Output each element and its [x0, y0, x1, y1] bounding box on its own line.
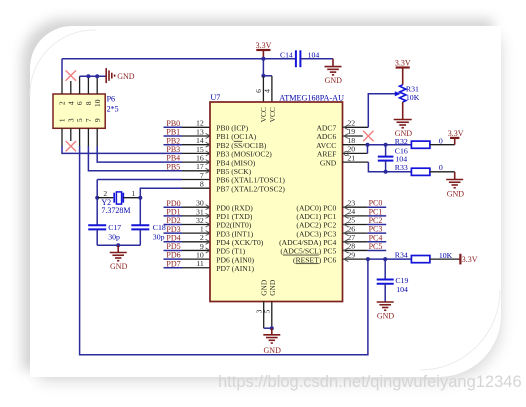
svg-text:3.3V: 3.3V: [462, 255, 478, 264]
svg-text:GND: GND: [325, 76, 343, 85]
svg-text:PB3 (MOSI/OC2): PB3 (MOSI/OC2): [216, 150, 272, 159]
ground IC bottom: [271, 328, 273, 334]
node crystal left: [95, 196, 99, 200]
svg-text:PD5: PD5: [166, 242, 180, 251]
svg-text:27: 27: [347, 233, 355, 242]
pin 27 PC4: [343, 241, 368, 243]
svg-text:PB5: PB5: [166, 162, 180, 171]
svg-text:18: 18: [347, 136, 355, 145]
wire crystal bottom: [97, 244, 140, 246]
pin 24 PC1: [343, 215, 368, 217]
wire XTAL1 pin7: [97, 179, 182, 181]
svg-text:3: 3: [255, 309, 263, 313]
svg-text:11: 11: [196, 259, 204, 268]
pin 18 AVCC: [343, 144, 368, 146]
wire net PC3: [368, 232, 387, 234]
wire R33 to gnd: [430, 171, 455, 173]
svg-text:PC2: PC2: [369, 216, 383, 225]
svg-text:PD4: PD4: [166, 233, 180, 242]
svg-text:PD1: PD1: [166, 207, 180, 216]
svg-text:PC5: PC5: [369, 242, 383, 251]
svg-text:C19: C19: [395, 276, 408, 285]
svg-text:PD1 (TXD): PD1 (TXD): [216, 212, 253, 221]
svg-text:VCC: VCC: [268, 107, 277, 122]
svg-text:PD0: PD0: [166, 199, 180, 208]
wire net PB2: [164, 144, 183, 146]
svg-text:GND: GND: [268, 279, 277, 296]
connector P6: [53, 94, 105, 128]
svg-text:ATMEG168PA-AU: ATMEG168PA-AU: [279, 93, 344, 102]
svg-text:PD5 (T1): PD5 (T1): [216, 247, 245, 256]
wire net PC1: [368, 215, 387, 217]
wire crystal right pin: [123, 197, 140, 199]
ground near C14: [325, 66, 342, 68]
wire net PD3: [164, 232, 183, 234]
svg-text:(ADC5/SCL) PC5: (ADC5/SCL) PC5: [280, 247, 336, 256]
card: [30, 26, 502, 377]
power 3.3V right: [450, 137, 459, 139]
wire P6 gnd bus: [80, 75, 106, 77]
svg-text:PD3 (INT1): PD3 (INT1): [216, 229, 253, 238]
svg-text:1: 1: [200, 225, 204, 234]
svg-text:32: 32: [196, 216, 204, 225]
svg-text:PB2 (SS/OC1B): PB2 (SS/OC1B): [216, 141, 266, 150]
svg-text:22: 22: [347, 119, 355, 128]
svg-text:PD6 (AIN0): PD6 (AIN0): [216, 255, 254, 264]
svg-text:9: 9: [200, 242, 204, 251]
svg-text:AVCC: AVCC: [316, 141, 336, 150]
power 3.3V top: [256, 49, 270, 51]
wire R34 to 3.3V: [430, 258, 459, 260]
wire R32 to 3.3V: [430, 144, 455, 146]
svg-text:3.3V: 3.3V: [256, 41, 272, 50]
svg-text:4: 4: [263, 89, 272, 93]
svg-text:1: 1: [58, 118, 67, 122]
svg-text:GND: GND: [395, 129, 413, 138]
wire C14 to ground: [300, 58, 333, 60]
svg-text:ADC7: ADC7: [316, 124, 336, 133]
wire P6-5 reset loop: [80, 146, 368, 355]
wire net PB1: [164, 135, 183, 137]
wire net PC2: [368, 224, 387, 226]
svg-text:3.3V: 3.3V: [448, 129, 464, 138]
svg-text:PD2(INT0): PD2(INT0): [216, 221, 251, 230]
ground near P6 rotated: [105, 68, 107, 83]
svg-text:PB4 (MISO): PB4 (MISO): [216, 158, 256, 167]
svg-text:(ADC4/SDA) PC4: (ADC4/SDA) PC4: [279, 238, 336, 247]
svg-text:6: 6: [75, 101, 84, 105]
pin 23 PC0: [343, 206, 368, 208]
pin 15 PB3: [182, 152, 210, 154]
wire 3.3V top rail: [62, 58, 263, 60]
pin 17 PB5: [182, 170, 210, 172]
svg-text:31: 31: [196, 207, 204, 216]
power 3.3V R31: [396, 66, 410, 68]
svg-text:30: 30: [196, 199, 204, 208]
pin 21 GND right: [343, 161, 369, 163]
node AVCC junction 2: [384, 143, 388, 147]
capacitor C16: [385, 145, 387, 157]
svg-text:ADC6: ADC6: [316, 132, 336, 141]
svg-text:R32: R32: [395, 137, 408, 146]
pin 9 PD5: [182, 249, 210, 251]
wire net PD6: [164, 258, 183, 260]
svg-text:PD7 (AIN1): PD7 (AIN1): [216, 264, 254, 273]
svg-text:23: 23: [347, 198, 355, 207]
wire net PD5: [164, 249, 183, 251]
svg-text:PB0: PB0: [166, 119, 180, 128]
pin 20 AREF: [343, 152, 368, 154]
svg-text:PB5 (SCK): PB5 (SCK): [216, 167, 251, 176]
no-connect X pin19: [363, 131, 373, 141]
svg-text:GND: GND: [110, 262, 128, 271]
wire P6-1 to PB3: [62, 146, 182, 153]
svg-text:10K: 10K: [406, 93, 420, 102]
pin 32 PD2: [182, 224, 210, 226]
svg-text:14: 14: [196, 136, 204, 145]
pin 4 VCC: [271, 76, 273, 102]
resistor R33: [411, 168, 430, 175]
wire P6-2 to rail: [61, 59, 63, 79]
svg-text:GND: GND: [264, 346, 282, 355]
node AVCC junction 1: [366, 143, 370, 147]
svg-text:3: 3: [66, 118, 75, 122]
svg-text:AREF: AREF: [317, 150, 336, 159]
svg-text:30p: 30p: [153, 232, 165, 241]
node P6-10 junction: [95, 74, 99, 78]
resistor R32: [411, 141, 430, 148]
pin 30 PD0: [182, 206, 210, 208]
pin 31 PD1: [182, 215, 210, 217]
wire net PB0: [164, 126, 183, 128]
wire net PD4: [164, 241, 183, 243]
pin P6-6 top: [79, 76, 81, 94]
wire AREF to AVCC: [367, 145, 369, 154]
svg-text:P6: P6: [107, 95, 115, 104]
svg-text:3.3V: 3.3V: [395, 58, 411, 67]
svg-text:15: 15: [196, 145, 204, 154]
watermark: [218, 373, 522, 392]
svg-text:(RESET) PC6: (RESET) PC6: [293, 255, 336, 264]
wire net PC5: [368, 249, 387, 251]
svg-text:29: 29: [347, 250, 355, 259]
svg-text:20: 20: [347, 145, 355, 154]
pin 28 PC5: [343, 249, 368, 251]
node P6-8 junction: [86, 74, 90, 78]
pin P6-2 top: [61, 78, 63, 94]
resistor R31 potentiometer: [400, 85, 406, 102]
resistor R34: [411, 256, 430, 263]
svg-text:7: 7: [200, 171, 204, 180]
pin 14 PB2: [182, 144, 210, 146]
svg-text:PD4 (XCK/T0): PD4 (XCK/T0): [216, 238, 264, 247]
no-connect X P6-4: [66, 70, 76, 80]
ground below C19: [377, 301, 394, 303]
svg-text:26: 26: [347, 224, 355, 233]
svg-text:PB3: PB3: [166, 145, 180, 154]
svg-text:PC1: PC1: [369, 207, 383, 216]
svg-text:(ADC2) PC2: (ADC2) PC2: [296, 221, 336, 230]
svg-text:8: 8: [84, 101, 93, 105]
pin P6-7 bottom: [87, 128, 89, 146]
wire AVCC net: [368, 144, 412, 146]
wire net PD1: [164, 215, 183, 217]
svg-text:104: 104: [396, 285, 408, 294]
pin P6-10 top: [96, 76, 98, 94]
svg-text:104: 104: [395, 154, 407, 163]
ground crystal: [117, 245, 119, 252]
svg-text:PB6 (XTAL1/TOSC1): PB6 (XTAL1/TOSC1): [216, 176, 285, 185]
capacitor C14: [295, 50, 297, 67]
pin 7 PB6: [182, 179, 210, 181]
svg-text:C17: C17: [108, 223, 121, 232]
svg-text:21: 21: [347, 153, 355, 162]
wire reset net: [368, 258, 411, 260]
node reset junction 2: [383, 257, 387, 261]
capacitor C18: [139, 198, 141, 225]
pin 10 PD6: [182, 258, 210, 260]
svg-text:25: 25: [347, 216, 355, 225]
pin 12 PB0: [182, 126, 210, 128]
svg-text:10: 10: [93, 99, 102, 107]
pin 11 PD7: [182, 267, 210, 269]
wire net PD2: [164, 224, 183, 226]
node VCC pin junction: [261, 74, 265, 78]
pin P6-5 bottom: [79, 128, 81, 146]
pin 16 PB4: [182, 161, 210, 163]
svg-text:PB4: PB4: [166, 154, 180, 163]
svg-text:28: 28: [347, 242, 355, 251]
power 3.3V reset: [459, 254, 461, 265]
svg-text:2*5: 2*5: [107, 104, 119, 113]
wire VCC pin bridge: [263, 75, 272, 77]
svg-text:7: 7: [84, 118, 93, 122]
svg-text:24: 24: [347, 207, 355, 216]
svg-text:4: 4: [66, 101, 75, 105]
svg-text:PB0 (ICP): PB0 (ICP): [216, 124, 248, 133]
svg-text:PB2: PB2: [166, 136, 180, 145]
pin 3 GND bottom: [263, 302, 265, 329]
svg-text:GND: GND: [377, 311, 395, 320]
pin 19 ADC6: [343, 135, 363, 137]
crystal Y2: [113, 193, 115, 203]
wire net PC4: [368, 241, 387, 243]
capacitor C17: [96, 198, 98, 225]
wire P6-9 to PB4: [97, 146, 182, 162]
svg-text:PD6: PD6: [166, 251, 180, 260]
pin 2 PD4: [182, 241, 210, 243]
wire XTAL2 pin8: [140, 188, 182, 198]
pin P6-8 top: [87, 76, 89, 94]
svg-text:GND: GND: [320, 158, 337, 167]
wire VCC pins riser: [262, 59, 264, 76]
svg-text:16: 16: [196, 154, 204, 163]
wire R31 to gnd: [402, 102, 404, 119]
svg-text:12: 12: [196, 119, 204, 128]
pin P6-9 bottom: [96, 128, 98, 146]
pin 22 ADC7: [343, 126, 369, 128]
svg-text:R33: R33: [395, 163, 408, 172]
svg-text:5: 5: [264, 309, 272, 313]
wire net PD0: [164, 206, 183, 208]
node reset junction 1: [366, 257, 370, 261]
wire to C14: [263, 58, 295, 60]
svg-text:PC3: PC3: [369, 225, 383, 234]
pin 8 PB7: [182, 187, 210, 189]
IC U7 body: [210, 102, 343, 302]
svg-text:PD0 (RXD): PD0 (RXD): [216, 203, 253, 212]
pin 1 PD3: [182, 232, 210, 234]
wiper arrow R31: [395, 91, 401, 96]
svg-text:PB1 (OC1A): PB1 (OC1A): [216, 132, 256, 141]
svg-text:9: 9: [93, 118, 102, 122]
svg-text:GND: GND: [447, 189, 465, 198]
pin P6-4 top: [70, 81, 72, 94]
pin P6-1 bottom: [61, 128, 63, 146]
corner arc bottom-right: [420, 290, 500, 370]
node crystal gnd junction: [116, 243, 120, 247]
svg-text:PB7 (XTAL2/TOSC2): PB7 (XTAL2/TOSC2): [216, 184, 285, 193]
svg-text:C18: C18: [153, 223, 166, 232]
pin 25 PC2: [343, 224, 368, 226]
pin P6-3 bottom: [70, 128, 72, 141]
node bottom gnd junction: [270, 326, 274, 330]
svg-text:5: 5: [75, 118, 84, 122]
svg-text:U7: U7: [210, 93, 220, 102]
svg-text:PD7: PD7: [166, 259, 180, 268]
svg-text:PC4: PC4: [369, 233, 383, 242]
svg-text:19: 19: [347, 127, 355, 136]
wire ADC7 to R31 wiper: [368, 94, 395, 128]
wire P6-7 to PB5: [88, 146, 182, 171]
svg-text:10: 10: [196, 251, 204, 260]
svg-text:VCC: VCC: [259, 107, 268, 122]
wire net PC0: [368, 206, 387, 208]
svg-text:C14: C14: [280, 51, 293, 60]
pin 5 GND bottom: [271, 302, 273, 329]
wire GND21 net: [368, 162, 411, 172]
pin 26 PC3: [343, 232, 368, 234]
ground below R31: [394, 119, 412, 121]
svg-text:1: 1: [131, 189, 135, 198]
wire crystal left pin: [97, 197, 113, 199]
svg-text:PC0: PC0: [369, 199, 383, 208]
svg-text:2: 2: [200, 233, 204, 242]
svg-text:PD3: PD3: [166, 225, 180, 234]
svg-text:GND: GND: [117, 72, 135, 81]
wire bottom gnd bridge: [264, 327, 272, 329]
svg-text:(ADC0) PC0: (ADC0) PC0: [296, 203, 336, 212]
node crystal right: [138, 196, 142, 200]
svg-text:PD2: PD2: [166, 216, 180, 225]
svg-text:2: 2: [103, 189, 107, 198]
svg-text:13: 13: [196, 127, 204, 136]
svg-text:PB1: PB1: [166, 128, 180, 137]
pin 29 RESET: [343, 258, 368, 260]
pin 6 VCC: [262, 76, 264, 102]
node VCC junction: [261, 57, 265, 61]
wire net PD7: [164, 267, 183, 269]
node gnd21 junction: [384, 170, 388, 174]
no-connect X P6-3: [66, 141, 76, 151]
capacitor C19: [384, 259, 386, 279]
svg-text:R34: R34: [395, 251, 408, 260]
svg-text:2: 2: [58, 101, 67, 105]
svg-text:8: 8: [200, 180, 204, 189]
svg-text:7.3728M: 7.3728M: [101, 206, 130, 215]
svg-text:(ADC1) PC1: (ADC1) PC1: [296, 212, 336, 221]
svg-text:0: 0: [439, 163, 443, 172]
ground right of R33: [446, 179, 463, 181]
svg-text:(ADC3) PC3: (ADC3) PC3: [296, 229, 336, 238]
svg-text:17: 17: [196, 162, 204, 171]
svg-text:30p: 30p: [108, 232, 120, 241]
pin 13 PB1: [182, 135, 210, 137]
